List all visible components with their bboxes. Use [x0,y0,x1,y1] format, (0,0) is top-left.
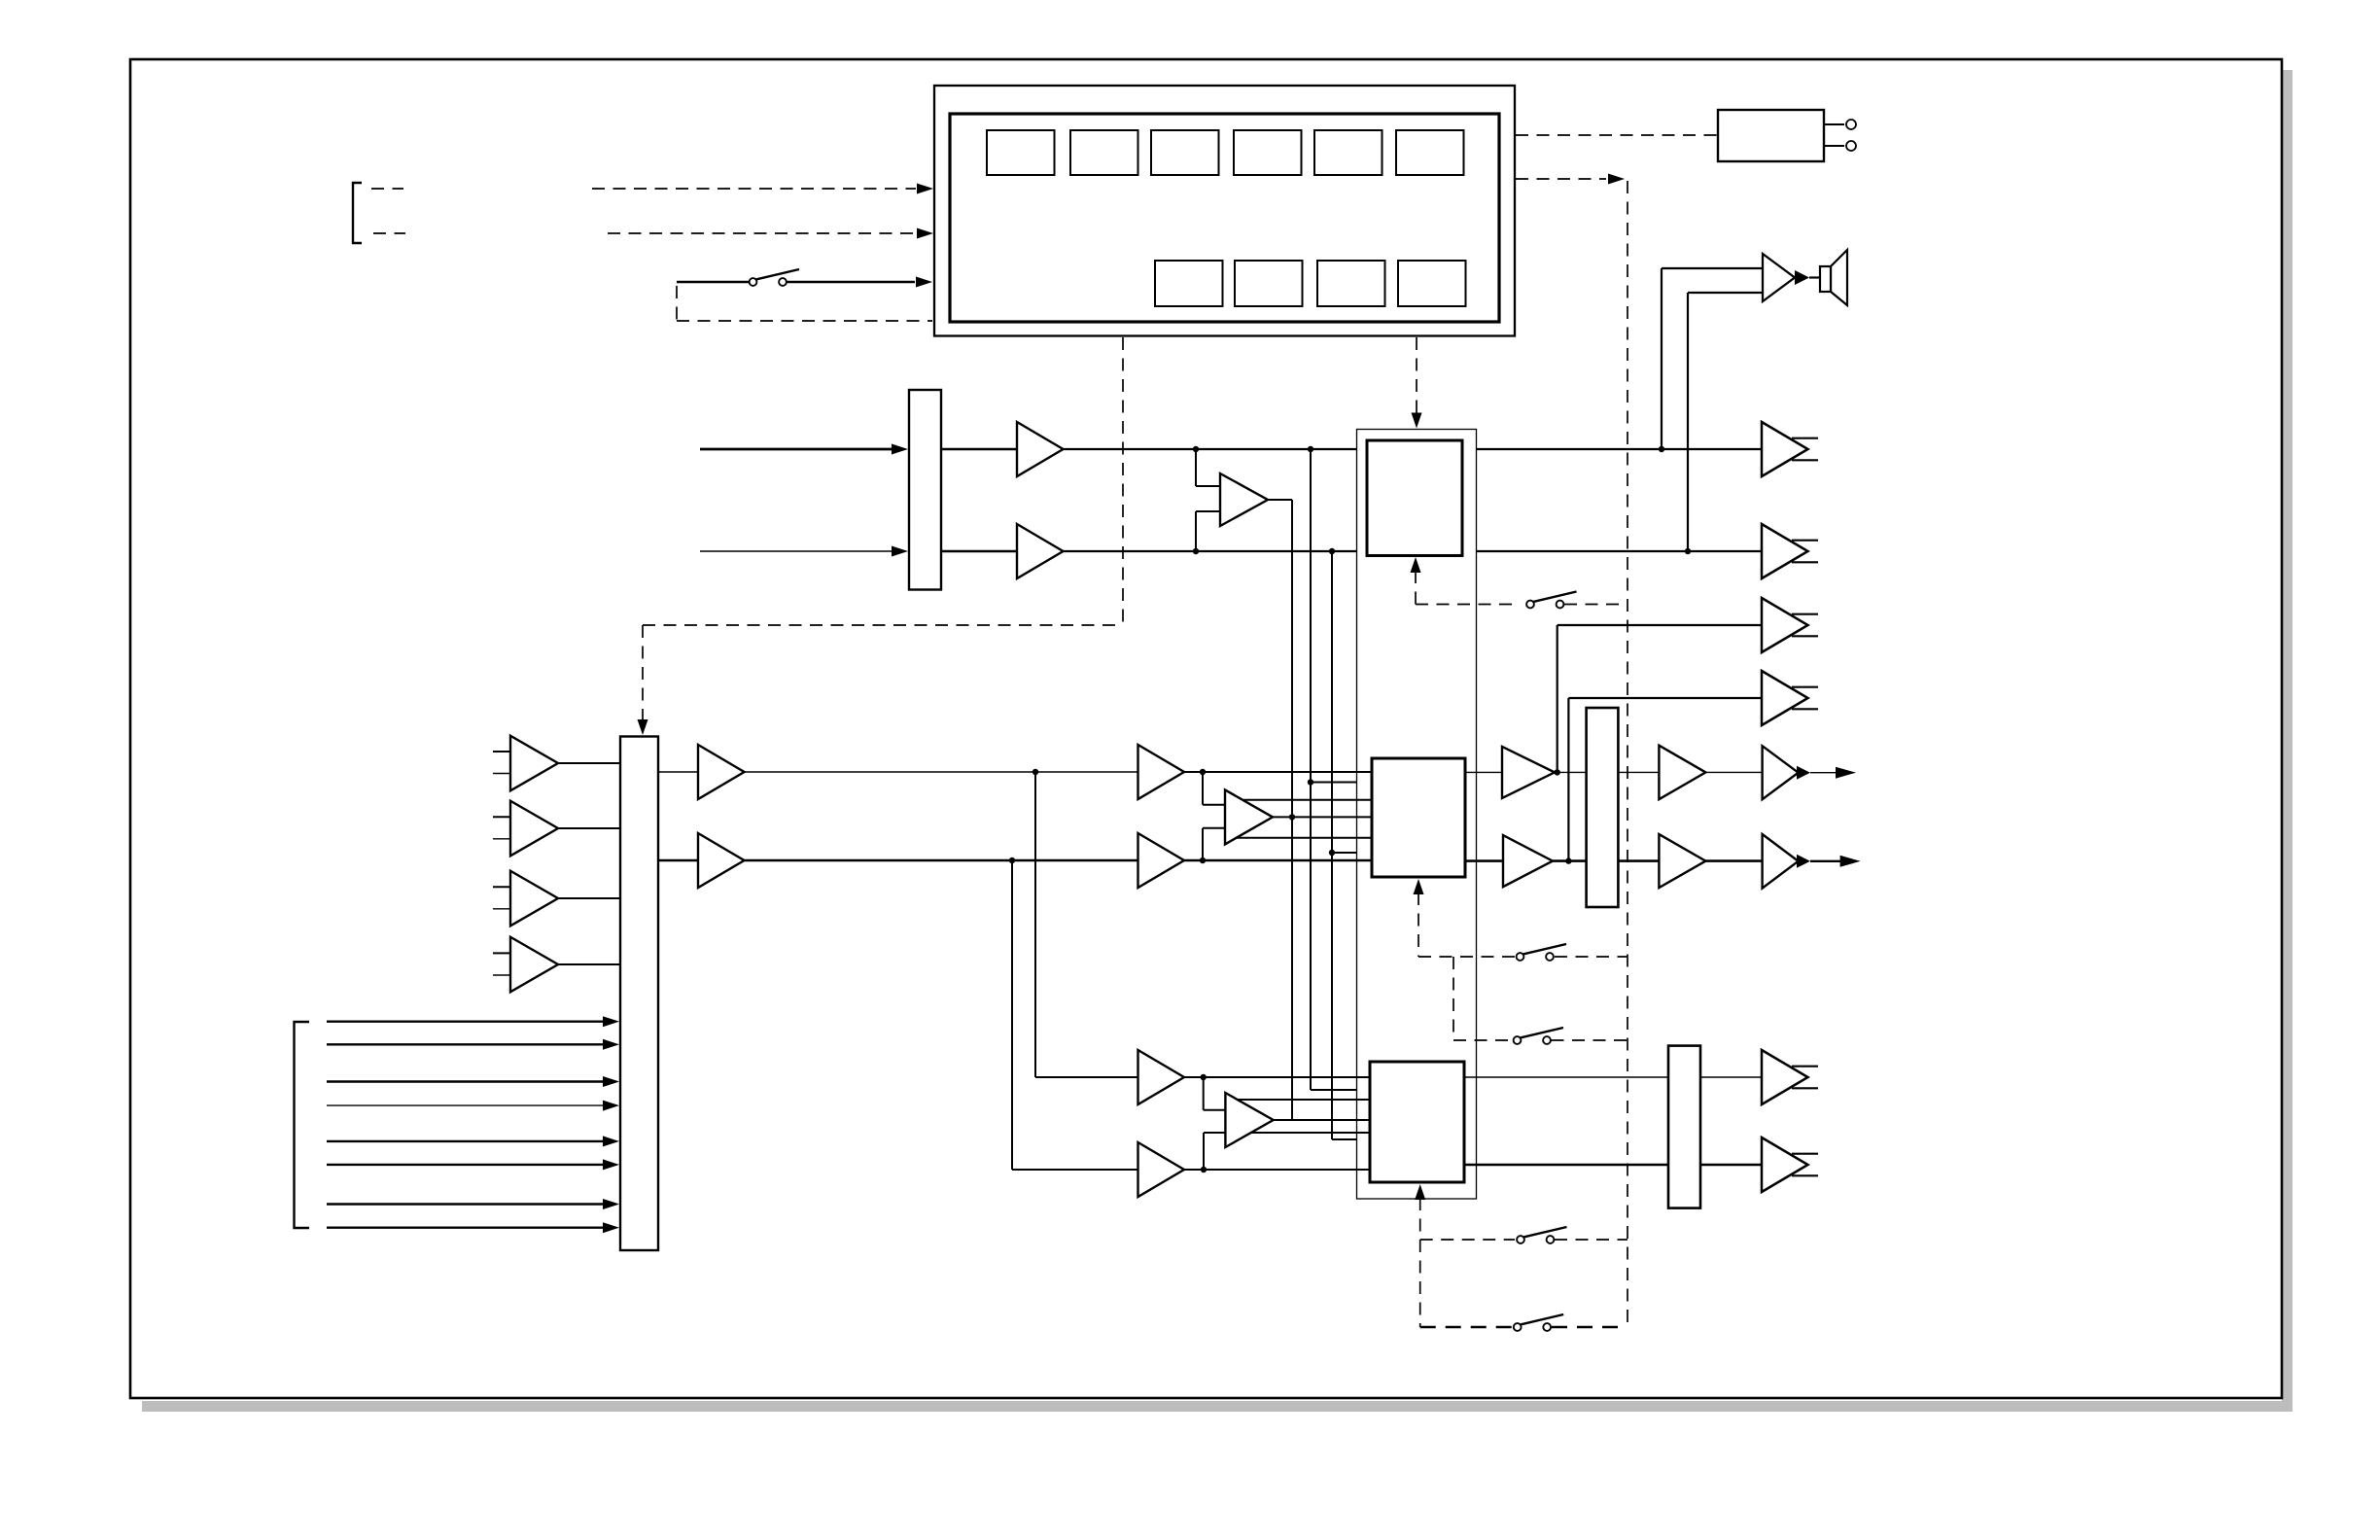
speaker amp upper input wire [1662,267,1763,269]
system control block U1 outer [934,86,1515,336]
wire SW-A to amp A1 [941,448,1017,450]
arrowhead into record/control block top [1412,413,1422,429]
amp M2 output to SW-B [558,827,620,829]
tape-out L tap vertical [1557,625,1558,771]
aux wire into mixer 2 (upper) [1238,1099,1370,1101]
wire L1 to record block [1064,448,1368,450]
speaker feed wire from L1 [1661,268,1662,448]
junction L2/S0 [1193,548,1199,554]
speaker feed wire from L2 [1687,293,1689,550]
junction L2/bus [1329,548,1335,554]
switch S3 (rec select L) [1517,944,1566,961]
rec L wire to mixer amp [745,771,1138,773]
junction rec L / drop C [1032,769,1038,775]
junction mix bus / S1 output [1289,814,1295,820]
diagram border frame [130,59,2282,1398]
S0 lower input stub from L2 [1195,511,1197,551]
arrowhead R into SW-A [892,546,908,557]
record/mix section outline box [1357,430,1477,1200]
output arrowhead L [1836,767,1856,779]
input group bracket (top left) [353,183,362,243]
junction monitor R / tape-out [1565,857,1571,863]
S2 upper stub vertical [1203,1077,1205,1110]
dashed drop from U1 to input selector [1122,337,1124,625]
arrowhead into B1 bottom [1411,557,1421,573]
switch S2 (rec mode) [1526,592,1576,609]
monitor R wire after fader [1618,859,1659,862]
S0 output wire [1268,499,1292,501]
source group bracket (bottom left) [295,1022,310,1228]
dashed wire U1 to timer connector [1516,134,1717,136]
amplifier P1 (monitor L) [1502,747,1555,798]
wire S1 to U1 [787,281,915,284]
long vertical dashed control bus [1627,181,1628,1327]
U1 key/function cell top 1 [987,130,1055,175]
output amplifier O2 (R) [1763,834,1799,889]
U1 key/function cell bottom 4 [1398,261,1466,306]
source wire 5 into SW-B [327,1140,603,1142]
timer/AC connector J1 [1718,110,1824,161]
amp M3 output to SW-B [558,897,620,899]
dashed run to switch S6 [1420,1326,1512,1328]
arrowhead into MX1 bottom [1414,879,1424,894]
mixer/record block MX2 [1370,1062,1464,1182]
aux wire into mixer 1 (lower) [1237,837,1372,839]
arrowhead source 2 [603,1039,619,1050]
monitor L wire to fader [1555,771,1587,773]
wire SW-A to amp A2 [941,550,1017,552]
loudspeaker SP1 [1820,250,1847,305]
MX2 output L wire [1464,1076,1668,1078]
speaker amplifier [1763,254,1795,301]
wire L2 to record block [1064,550,1368,552]
U1 key/function cell top 4 [1234,130,1302,175]
U1 key/function cell top 2 [1070,130,1138,175]
microphone amplifier M4 [510,937,558,993]
dashed S4 to control bus [1552,1039,1628,1041]
S2 output into mixer 2 [1274,1119,1370,1121]
wire L2 record block to line-out R [1462,550,1762,552]
dashed jog down to S6 row [1419,1240,1421,1327]
arrowhead source 7 [603,1199,619,1209]
J1 pin 2 terminal [1846,141,1856,151]
tape-out amplifier R [1762,671,1808,725]
input selector bar SW-A [909,390,941,590]
vertical bus L1 to mixer 2 [1310,449,1312,1090]
line input L wire [700,448,893,451]
dashed control wire A into U1 [592,188,916,190]
amp M1 output to SW-B [558,762,620,764]
junction A5 output / S2 stub [1201,1074,1207,1080]
source wire 1 into SW-B [327,1020,603,1022]
mic input 1 stub upper [493,751,510,752]
output amplifier O1 (L) [1763,746,1799,799]
aux wire into mixer 2 (lower) [1251,1132,1370,1134]
dashed jog down to S4 row [1452,957,1454,1040]
arrowhead L into SW-A [892,444,908,455]
dashed control into MX2 [1419,1198,1421,1240]
arrowhead source 1 [603,1016,619,1027]
J1 pin 2 lead [1824,145,1844,147]
dashed drop from U1 to record block [1416,337,1417,414]
junction L1/speaker feed [1659,446,1664,452]
junction bus L1 tap [1308,779,1313,785]
vertical bus L2 to mixer 2 [1331,551,1333,1139]
drop D into amp A6 [1012,1169,1138,1171]
U1 key/function cell top 3 [1151,130,1219,175]
speaker amp lower input wire [1688,292,1763,294]
switch S1 feed wire [677,281,749,284]
source wire 3 into SW-B [327,1080,603,1082]
switch S4 (rec select R) [1514,1028,1563,1044]
mic input 2 stub lower [493,838,510,840]
MX1 output R wire [1465,859,1503,862]
dashed S6 to control bus end [1552,1326,1627,1328]
mic input 4 stub upper [493,952,510,954]
dashed return wire to U1 bottom left [677,320,932,322]
dashed control into MX1 [1417,892,1419,957]
amplifier A4 (mixer1 in R) [1138,833,1185,888]
arrowhead source 5 [603,1136,619,1146]
U1 key/function cell bottom 3 [1317,261,1385,306]
summing amplifier S1 (mix 1) [1225,789,1273,844]
output wire L [1810,772,1837,774]
junction A6 output / S2 stub [1201,1167,1207,1172]
microphone amplifier M3 [510,871,558,927]
amplifier A3 (mixer1 in L) [1138,745,1185,799]
mic input 2 stub upper [493,816,510,818]
switch S6 (dubbing R) [1514,1314,1563,1331]
arrowhead into U1 (S1) [916,277,932,288]
junction L1/bus [1308,446,1313,452]
wire to speaker [1809,276,1820,278]
S0 upper input stub horizontal [1196,485,1220,487]
S0 lower input stub horizontal [1196,510,1220,512]
source wire 6 into SW-B [327,1164,603,1166]
bus L1 tap into mixer 1 [1311,782,1372,784]
switch S5 (dubbing L) [1517,1227,1566,1243]
summing amplifier S2 (mix 2) [1225,1093,1273,1147]
MX1 output L wire [1465,771,1502,773]
dashed control wire A (left stub) [371,188,403,190]
amplifier A2 (line R) [1017,524,1064,578]
dashed S5 to control bus [1555,1239,1627,1241]
SW-B output L wire [658,771,698,773]
mic input 3 stub upper [493,886,510,888]
dashed control wire B into U1 [608,232,916,234]
amplifier A6 (mixer2 in R) [1138,1142,1185,1197]
rec-out amplifier L [1762,1050,1808,1104]
S1 upper stub vertical [1202,772,1204,805]
amp A4 output into mixer 1 [1184,859,1372,861]
amplifier B1 (rec L) [698,745,745,799]
arrowhead source 8 [603,1222,619,1233]
filled arrow speaker amp output [1795,270,1809,285]
S1 lower stub horizontal [1203,827,1225,829]
source wire 8 into SW-B [327,1226,603,1228]
junction bus L2 tap [1329,850,1335,856]
switch S1 (timer/power) [750,269,799,286]
dashed control wire B (left stub) [373,232,405,234]
bus L1 into mixer 2 [1311,1089,1370,1091]
arrowhead into U1 (wire A) [917,184,933,194]
mic input 4 stub lower [493,974,510,976]
dashed S2 to control bus [1564,604,1627,606]
mic input 3 stub lower [493,908,510,910]
dashed run to switch S5 [1420,1239,1515,1241]
drop D vertical wire [1011,860,1013,1170]
arrowhead into U1 (wire B) [917,228,933,239]
tape-out R wire [1568,697,1762,699]
arrowhead source 6 [603,1159,619,1170]
record control block B1 [1367,440,1462,556]
S2 upper stub horizontal [1204,1109,1226,1111]
arrowhead on control wire [1608,174,1625,185]
dashed control wire from U1 right [1516,178,1606,180]
arrowhead source 4 [603,1101,619,1111]
vertical mix bus (upper) [1291,500,1293,818]
U1 key/function cell bottom 1 [1155,261,1223,306]
J1 pin 1 terminal [1846,120,1856,129]
border shadow right [2282,70,2292,1412]
source wire 2 into SW-B [327,1043,603,1045]
U1 key/function cell top 5 [1314,130,1382,175]
junction L2/speaker feed [1685,548,1691,554]
bus L2 tap into mixer 1 [1332,852,1372,854]
amplifier B2 (rec R) [698,833,745,888]
monitor R wire to fader [1553,859,1587,862]
arrowhead source 3 [603,1076,619,1087]
output arrowhead R [1840,856,1861,867]
system control block U1 inner [950,114,1499,322]
dashed run to switch S2 [1416,604,1515,606]
arrowhead into MX2 bottom [1415,1184,1425,1200]
amplifier A1 (line L) [1017,422,1064,476]
amp A6 output into mixer 2 [1184,1169,1370,1171]
mic input 1 stub lower [493,773,510,775]
rec R wire to mixer amp [745,859,1138,862]
source wire 4 into SW-B [327,1104,603,1106]
tape-out L wire [1557,624,1762,626]
dashed S3 to control bus [1555,956,1627,958]
S1 lower stub vertical [1202,828,1204,860]
SW-B output R wire [658,859,698,862]
filled arrow O1 output [1797,766,1810,780]
U1 key/function cell top 6 [1396,130,1464,175]
dashed run to switch S4 [1453,1039,1512,1041]
wire L1 record block to line-out L [1462,448,1762,450]
master fader F1 [1587,708,1619,907]
line input R wire [700,550,893,552]
amplifier A5 (mixer2 in L) [1138,1050,1185,1104]
J1 pin 1 lead [1824,123,1844,125]
dashed control run to selector 2 [643,624,1123,626]
amp A3 output into mixer 1 [1184,771,1372,773]
record level fader F2 [1668,1046,1700,1208]
aux wire into mixer 1 (upper) [1243,799,1372,801]
junction A4 output / S1 stub [1200,857,1206,863]
line-out amplifier L [1762,422,1808,476]
amp A5 output into mixer 2 [1184,1076,1370,1078]
wire F2 to rec-out R [1700,1164,1763,1166]
amplifier P2 (headphone L) [1659,746,1705,800]
output wire R [1810,860,1840,862]
S1 upper stub horizontal [1203,804,1225,806]
monitor L wire after fader [1618,771,1659,773]
filled arrow O2 output [1797,855,1810,868]
junction A3 output / S1 stub [1200,769,1206,775]
arrowhead into selector 2 top [638,719,648,735]
dashed drop into selector 2 [642,625,644,721]
S2 lower stub vertical [1203,1133,1205,1170]
summing amplifier S0 (mono mix) [1220,473,1268,526]
dashed return wire down from S1 [676,286,678,321]
MX2 output R wire [1464,1164,1668,1166]
drop C into amp A5 [1035,1076,1138,1078]
source wire 7 into SW-B [327,1203,603,1205]
junction rec R / drop D [1009,857,1015,863]
U1 key/function cell bottom 2 [1235,261,1303,306]
amplifier P4 (headphone R) [1659,834,1705,888]
border shadow bottom [142,1401,2292,1412]
wire to output amp L [1705,771,1762,773]
tape-out R tap vertical [1567,698,1569,859]
microphone amplifier M1 [510,736,558,791]
mixer/record block MX1 [1372,758,1465,877]
junction monitor L / tape-out [1555,769,1560,775]
input selector bar SW-B [620,737,658,1251]
amplifier P3 (monitor R) [1503,835,1553,887]
S0 upper input stub from L1 [1195,449,1197,486]
S1 output into mixer 1 [1273,816,1372,818]
junction L1/S0 [1193,446,1199,452]
wire F2 to rec-out L [1700,1076,1763,1078]
bus L2 into mixer 2 [1332,1138,1370,1140]
dashed control into B1 [1415,571,1417,605]
vertical mix bus (lower) to mixer 2 [1291,818,1293,1120]
drop C vertical wire [1034,772,1036,1077]
tape-out amplifier L [1762,598,1808,652]
S2 lower stub horizontal [1204,1132,1225,1134]
dashed run to switch S3 [1418,956,1515,958]
microphone amplifier M2 [510,801,558,857]
amp M4 output to SW-B [558,963,620,965]
wire to output amp R [1705,859,1762,862]
line-out amplifier R [1762,524,1808,578]
rec-out amplifier R [1762,1137,1808,1192]
